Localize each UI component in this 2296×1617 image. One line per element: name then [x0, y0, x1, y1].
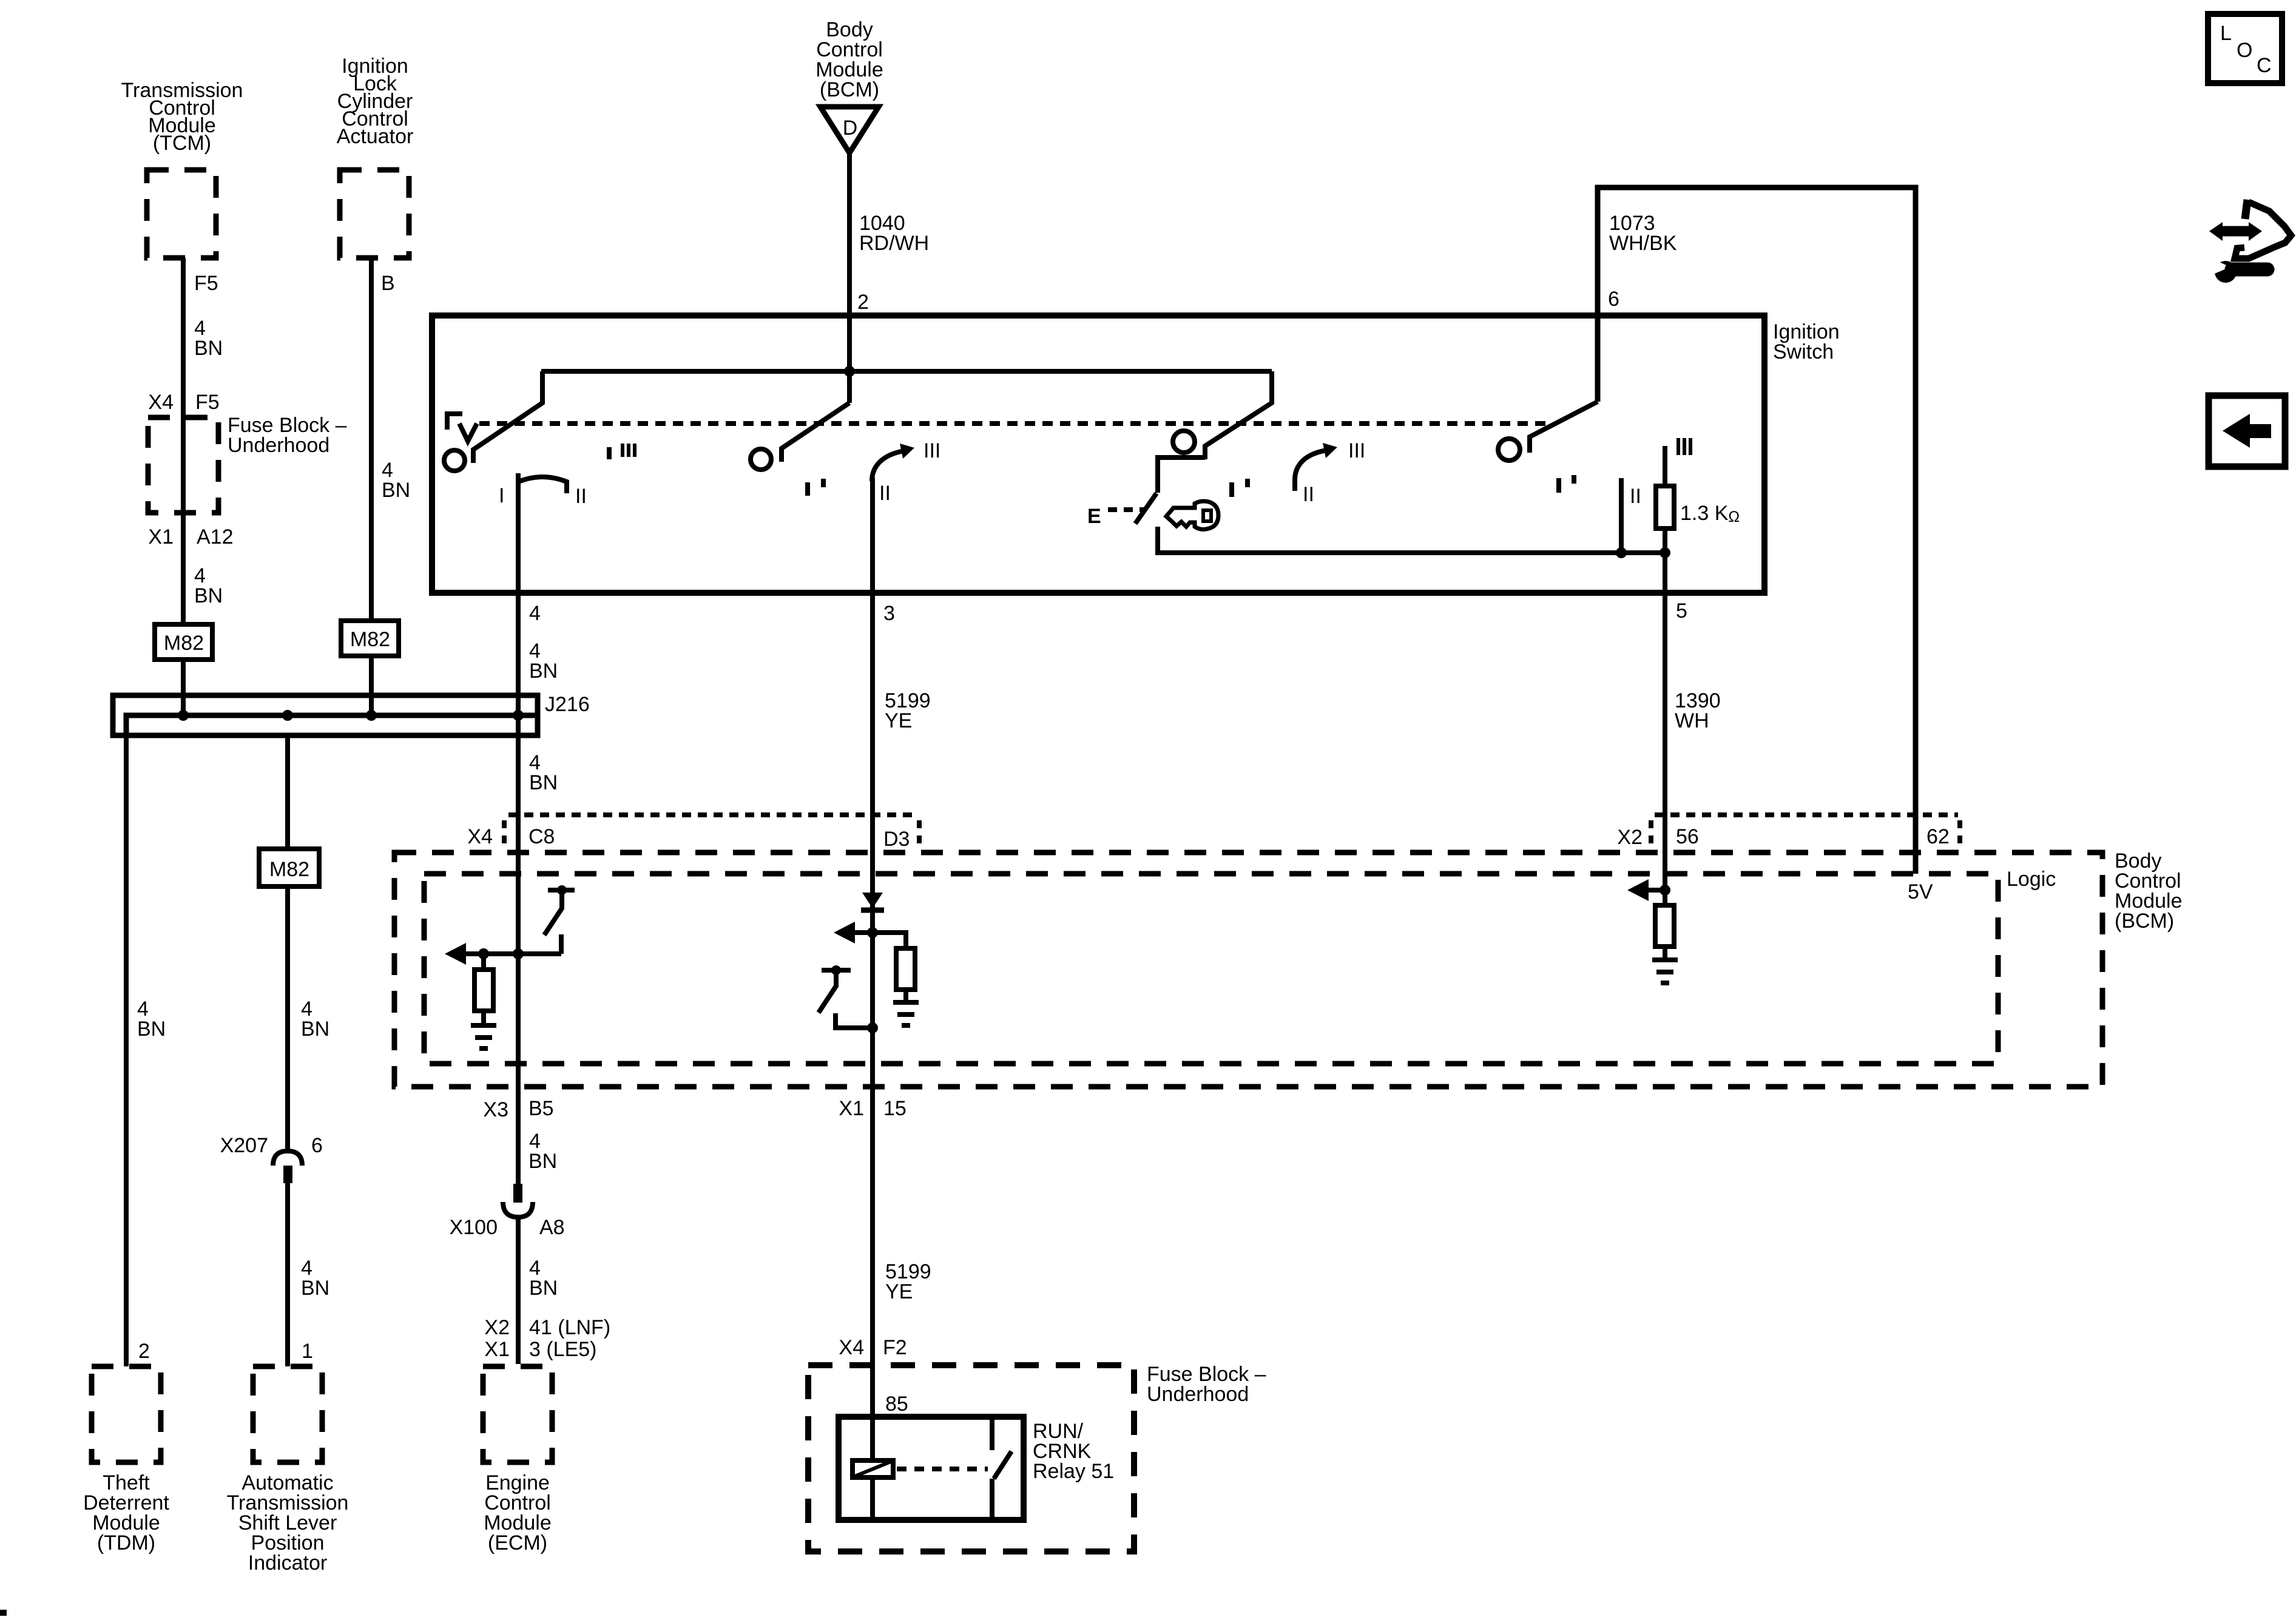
- svg-text:A12: A12: [197, 525, 234, 549]
- resistor 1.3 K ohm in switch: [1656, 446, 1674, 553]
- pin labels X1 15 below BCM: [839, 1097, 906, 1120]
- BCM inner logic dashed box: [424, 874, 1998, 1064]
- svg-text:II: II: [1303, 483, 1314, 506]
- switch pole 4 movable contact circle: [1498, 439, 1520, 461]
- diagnostic icon wrench: [2211, 258, 2267, 283]
- svg-text:F2: F2: [883, 1336, 907, 1359]
- svg-text:(TCM): (TCM): [153, 132, 211, 155]
- wire M82 to bus bar: [181, 660, 186, 715]
- svg-text:F5: F5: [194, 272, 218, 295]
- relay coil: [853, 1460, 893, 1477]
- module label Transmission Control Module (TCM): [121, 79, 243, 155]
- node X4 F5 connector labels: [148, 391, 219, 414]
- pin labels X1 3 (LE5): [484, 1338, 596, 1361]
- LOC legend box icon: [2208, 14, 2282, 83]
- svg-text:X2: X2: [1617, 826, 1643, 849]
- relay contact: [992, 1417, 1011, 1520]
- module label Body Control Module (BCM) top: [815, 18, 883, 101]
- svg-text:BN: BN: [194, 337, 223, 360]
- wire 1040 RD/WH from BCM D to ignition switch pin 2: [847, 153, 852, 316]
- inline connector X207 male pin: [283, 1166, 292, 1183]
- svg-text:X4: X4: [467, 825, 493, 848]
- junction node at pin2 wire and internal bus: [844, 366, 855, 377]
- ignition switch label: [1773, 320, 1840, 363]
- wire TDM branch from bus bar, 4 BN: [124, 735, 129, 1366]
- fuse block underhood label: [1147, 1363, 1266, 1406]
- pin labels X2 56: [1617, 825, 1698, 849]
- BCM internal signal line with arrow (left): [445, 943, 561, 965]
- svg-text:YE: YE: [885, 709, 912, 732]
- wire label 4 BN below bus: [529, 751, 558, 794]
- svg-text:X4: X4: [148, 391, 174, 414]
- svg-text:15: 15: [883, 1097, 907, 1120]
- svg-text:BN: BN: [194, 584, 223, 607]
- resistor BCM middle branch: [873, 933, 915, 1002]
- svg-text:C8: C8: [528, 825, 555, 848]
- svg-text:2: 2: [138, 1340, 150, 1363]
- pole 2 position ticks I: [808, 479, 823, 496]
- svg-text:F5: F5: [195, 391, 220, 414]
- inline connector X207 female arc: [273, 1151, 302, 1166]
- BCM internal controlled switch (middle) bar: [822, 968, 851, 973]
- BCM internal signal line with arrow (middle): [834, 922, 873, 944]
- connector separator 62: [1957, 820, 1962, 847]
- key symbol: [1166, 501, 1218, 529]
- relay label RUN/CRNK Relay 51: [1033, 1420, 1114, 1483]
- pole 4 label III: [1678, 438, 1690, 455]
- svg-text:1: 1: [302, 1340, 313, 1363]
- svg-text:X207: X207: [220, 1134, 268, 1157]
- svg-text:II: II: [879, 482, 891, 505]
- wire label 4 BN: [382, 459, 410, 502]
- splice pack bus bar J216 outer box: [113, 695, 538, 735]
- connector triangle D from BCM: [820, 107, 879, 153]
- module Theft Deterrent Module dashed box: [92, 1366, 161, 1462]
- stray mark bottom left: [0, 1610, 7, 1616]
- svg-text:Underhood: Underhood: [1147, 1383, 1249, 1406]
- dashed link from E to key blade: [1108, 507, 1146, 512]
- inline connector X100 female arc: [503, 1202, 533, 1217]
- switch pole 1 blade: [473, 371, 542, 463]
- ground symbol BCM middle: [893, 1002, 919, 1025]
- splice M82 (left): [155, 624, 212, 660]
- BCM connector strip dotted line right segment: [1655, 812, 1958, 817]
- wire D3 input continues: [870, 893, 875, 1519]
- fuse block underhood dashed box (upper left): [148, 417, 218, 513]
- svg-text:BN: BN: [529, 771, 558, 794]
- junction node resistor branch: [478, 948, 489, 959]
- switch pole 2 movable contact circle: [751, 449, 771, 470]
- wire TCM pin F5 to fuse block, circuit 4 BN: [181, 258, 186, 417]
- svg-text:5V: 5V: [1908, 880, 1933, 903]
- BCM middle switch blade: [819, 970, 836, 1013]
- wire through fuse block: [181, 417, 186, 513]
- fuse block underhood dashed box (bottom): [808, 1365, 1134, 1551]
- svg-text:3 (LE5): 3 (LE5): [529, 1338, 597, 1361]
- connector separator X2: [1649, 820, 1653, 847]
- svg-text:RD/WH: RD/WH: [859, 232, 929, 255]
- svg-text:(BCM): (BCM): [820, 78, 879, 101]
- pole 3 rotation arc arrow toward III: [1295, 443, 1337, 491]
- diagnostic icon double arrow: [2209, 222, 2262, 241]
- wire actuator pin B down to splice M82, 4 BN: [369, 258, 374, 621]
- svg-text:WH/BK: WH/BK: [1609, 232, 1677, 255]
- pin labels X3 B5 below BCM: [483, 1097, 553, 1121]
- splice pack internal bus line: [126, 715, 535, 735]
- svg-text:E: E: [1087, 505, 1101, 528]
- pole 3 lower contact path to key contact: [1158, 457, 1205, 493]
- module label Engine Control Module (ECM): [484, 1471, 552, 1555]
- wire shift indicator branch from bus bar: [285, 735, 290, 1149]
- svg-text:M82: M82: [350, 628, 390, 651]
- wire label 4 BN below B5: [528, 1130, 557, 1173]
- switch pole 4 blade: [1530, 402, 1598, 453]
- junction node pin4 wire on bus: [513, 710, 524, 721]
- wire label 4 BN above shift indicator: [301, 1257, 329, 1300]
- junction node C8 wire crossing: [513, 948, 524, 959]
- svg-text:BN: BN: [137, 1018, 166, 1041]
- wire pin2 stub into switch: [847, 316, 852, 403]
- wire internal top bus of switch: [541, 369, 1272, 374]
- svg-text:6: 6: [311, 1134, 323, 1157]
- BCM outer dashed box: [394, 852, 2102, 1087]
- svg-text:(TDM): (TDM): [97, 1531, 155, 1555]
- svg-text:X1: X1: [148, 525, 174, 549]
- svg-text:BN: BN: [382, 479, 410, 502]
- BCM left switch blade: [544, 890, 562, 935]
- wire ignition switch pin 4 down to bus bar and BCM C8: [516, 473, 521, 1184]
- svg-text:56: 56: [1676, 825, 1699, 848]
- lock position symbol: [447, 414, 477, 441]
- ground symbol BCM right: [1652, 960, 1678, 983]
- svg-text:2: 2: [857, 291, 869, 314]
- svg-text:L: L: [2220, 22, 2232, 45]
- junction node actuator wire on bus: [366, 710, 377, 721]
- pin labels X2 41 (LNF): [484, 1316, 610, 1339]
- svg-text:BN: BN: [528, 1150, 557, 1173]
- junction node 56 branch: [1660, 885, 1670, 896]
- connector separator D3: [917, 820, 922, 847]
- svg-text:4: 4: [529, 602, 541, 625]
- svg-text:Indicator: Indicator: [248, 1551, 327, 1575]
- module label Body Control Module (BCM) right: [2115, 849, 2183, 933]
- relay dashed actuation link: [897, 1467, 988, 1471]
- pole 4 position ticks I: [1559, 475, 1574, 493]
- switch position dashed reference line: [479, 421, 1551, 426]
- svg-text:85: 85: [885, 1393, 908, 1416]
- pole 1 position ticks III: [623, 444, 635, 457]
- svg-text:BN: BN: [529, 660, 558, 683]
- svg-text:WH: WH: [1675, 709, 1709, 732]
- BCM left switch contact: [559, 934, 564, 954]
- switch pole 3 blade: [1205, 371, 1272, 459]
- svg-text:5: 5: [1676, 599, 1687, 623]
- svg-text:D3: D3: [883, 828, 910, 851]
- svg-text:62: 62: [1926, 825, 1950, 848]
- module Engine Control Module dashed box: [483, 1366, 552, 1462]
- svg-text:B: B: [381, 272, 395, 295]
- wire 56 input down to junction: [1663, 815, 1667, 905]
- connector labels X207 6: [220, 1134, 323, 1157]
- module TCM dashed box: [147, 170, 216, 258]
- wire label 4 BN TDM branch: [137, 998, 166, 1041]
- wire key contact down to pole output: [1158, 527, 1665, 553]
- ignition switch box: [432, 316, 1764, 593]
- resistor BCM right pull-down: [1655, 905, 1674, 960]
- svg-text:M82: M82: [269, 858, 309, 881]
- splice M82 (third): [259, 849, 319, 886]
- svg-text:(BCM): (BCM): [2115, 910, 2174, 933]
- svg-text:Underhood: Underhood: [228, 434, 329, 457]
- module Ignition Lock Cylinder Control Actuator dashed box: [340, 170, 409, 258]
- svg-text:BN: BN: [301, 1018, 329, 1041]
- svg-text:3: 3: [883, 602, 895, 625]
- pole 1 position tick I: [607, 447, 612, 459]
- connector labels X100 A8: [450, 1216, 565, 1239]
- BCM connector strip dotted line left segment: [508, 812, 917, 817]
- svg-text:II: II: [1630, 485, 1641, 508]
- wire label 4 BN: [529, 640, 558, 683]
- svg-text:BN: BN: [301, 1277, 329, 1300]
- svg-text:M82: M82: [164, 632, 204, 655]
- module label Ignition Lock Cylinder Control Actuator: [337, 55, 414, 148]
- wire label 1073 WH/BK: [1609, 212, 1677, 255]
- switch pole 2 blade: [782, 403, 849, 462]
- junction node contact on wire: [867, 1022, 878, 1033]
- inline connector X100 male pin: [513, 1184, 522, 1203]
- BCM internal signal line with arrow (right): [1627, 879, 1665, 901]
- ground symbol BCM left: [471, 1025, 496, 1048]
- BCM internal controlled switch (left) bar: [548, 888, 575, 893]
- pin labels X4 C8: [467, 825, 555, 848]
- module label Automatic Transmission Shift Lever Position Indicator: [227, 1471, 349, 1575]
- wire label 1390 WH: [1675, 689, 1721, 732]
- key operated blade (open): [1135, 493, 1156, 524]
- junction node on bar: [557, 885, 567, 895]
- junction node on bar: [831, 965, 841, 975]
- svg-text:X1: X1: [484, 1338, 510, 1361]
- back arrow box icon: [2209, 396, 2285, 467]
- svg-text:BN: BN: [529, 1277, 558, 1300]
- junction node TCM wire on bus: [178, 710, 189, 721]
- svg-text:III: III: [1348, 439, 1365, 462]
- pole 1 contact arc I to II: [518, 477, 567, 493]
- svg-text:Actuator: Actuator: [337, 125, 414, 148]
- svg-text:A8: A8: [539, 1216, 565, 1239]
- wire M82 to bus bar: [369, 656, 374, 715]
- svg-text:O: O: [2237, 39, 2252, 62]
- wire ignition switch pin 3 circuit 5199 YE down to BCM D3: [870, 478, 875, 893]
- pole 4 position II contact bar: [1619, 478, 1624, 553]
- diagnostic icon connector outline: [2235, 200, 2291, 258]
- connector separator X4: [502, 820, 507, 847]
- module Automatic Transmission Shift Lever Position Indicator dashed box: [253, 1366, 322, 1462]
- relay RUN/CRNK Relay 51 box: [839, 1417, 1024, 1520]
- wire label 4 BN above ECM: [529, 1257, 558, 1300]
- wire fuse block to splice M82, 4 BN: [181, 513, 186, 624]
- wire X100 to ECM: [516, 1217, 521, 1364]
- svg-text:Switch: Switch: [1773, 340, 1834, 363]
- svg-text:X3: X3: [483, 1098, 508, 1121]
- wire pin 6 riser and loop to BCM pin 62: [1598, 187, 1916, 874]
- wire label 4 BN shift branch: [301, 998, 329, 1041]
- diode on D3 input: [861, 893, 884, 910]
- pole 3 position ticks I: [1232, 479, 1248, 497]
- junction node shift indicator wire on bus: [282, 710, 293, 721]
- svg-text:II: II: [575, 485, 587, 508]
- junction node II bar to output: [1616, 547, 1627, 558]
- key symbol hole: [1203, 510, 1211, 521]
- resistor BCM left pull-down: [474, 954, 493, 1025]
- BCM middle switch contact to wire: [836, 1013, 873, 1028]
- module label Theft Deterrent Module (TDM): [83, 1471, 169, 1555]
- svg-text:D: D: [843, 116, 858, 140]
- svg-text:X4: X4: [839, 1336, 864, 1359]
- wire X207 to shift indicator: [285, 1183, 290, 1366]
- svg-text:Logic: Logic: [2007, 868, 2056, 891]
- junction node D3 branch: [867, 927, 878, 938]
- svg-text:I: I: [499, 484, 504, 507]
- pole 2 rotation arc arrow toward III: [872, 444, 914, 481]
- svg-text:III: III: [923, 439, 940, 462]
- svg-text:X2: X2: [484, 1316, 510, 1339]
- wire label 5199 YE: [885, 689, 931, 732]
- svg-text:(ECM): (ECM): [488, 1531, 547, 1555]
- node X1 A12 connector labels: [148, 525, 233, 549]
- pin labels X4 F2: [839, 1336, 907, 1359]
- junction node resistor to output: [1660, 547, 1670, 558]
- fuse block underhood label: [228, 414, 347, 457]
- svg-text:X1: X1: [839, 1097, 864, 1120]
- svg-text:6: 6: [1608, 288, 1619, 311]
- svg-text:B5: B5: [528, 1097, 554, 1120]
- wire label 4 BN: [194, 317, 223, 360]
- svg-text:J216: J216: [545, 693, 590, 716]
- wire label 4 BN: [194, 564, 223, 607]
- switch pole 1 movable contact circle: [444, 450, 465, 471]
- wire ignition switch pin 5 circuit 1390 WH down to BCM 56: [1663, 553, 1667, 890]
- wire label 1040 RD/WH: [859, 212, 929, 255]
- svg-text:Relay 51: Relay 51: [1033, 1460, 1114, 1483]
- switch pole 3 key switch movable contact circle: [1173, 431, 1195, 453]
- svg-text:41 (LNF): 41 (LNF): [529, 1316, 610, 1339]
- svg-text:YE: YE: [885, 1280, 913, 1303]
- wire label 5199 YE above fuse block: [885, 1260, 931, 1303]
- svg-text:C: C: [2257, 54, 2272, 77]
- splice M82 (second): [341, 621, 399, 656]
- svg-text:X100: X100: [450, 1216, 498, 1239]
